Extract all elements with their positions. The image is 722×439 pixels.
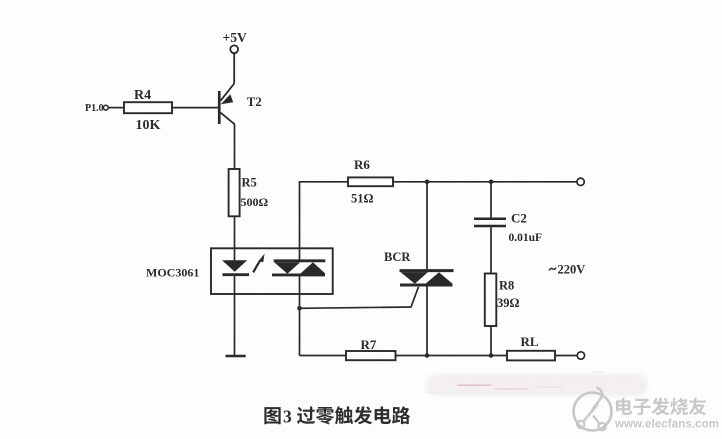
wire C2 to R8 <box>490 227 492 273</box>
pink highlight smear <box>426 374 648 396</box>
optocoupler MOC3061 box <box>211 248 333 294</box>
power +5V terminal circle <box>230 45 238 53</box>
wire MOC pin4 down <box>299 275 301 356</box>
wire BCR MT2 <box>426 182 428 269</box>
light arrow symbol <box>253 254 264 273</box>
watermark 电子发烧友 text <box>616 398 706 416</box>
wire LED cathode to ground <box>234 276 236 356</box>
wire BCR MT1 to bottom rail <box>426 287 428 356</box>
wire junction to C2 <box>490 182 492 218</box>
wire P1.0 to R4 <box>108 107 124 109</box>
resistor R6 <box>348 177 393 186</box>
triac BCR symbol <box>400 271 454 285</box>
faint scan smudge marks (decorative) <box>427 372 604 394</box>
wire +5V to T2 emitter <box>233 53 235 83</box>
resistor R4 <box>124 102 172 113</box>
wire R6 to top terminal <box>393 181 577 183</box>
node P1.0 terminal circle <box>103 105 108 110</box>
ground <box>226 355 246 358</box>
label ~220V <box>549 268 556 271</box>
wire T2 collector to R5 <box>234 124 236 169</box>
junction dot BCR bottom <box>425 353 430 358</box>
junction dot gate line <box>297 306 302 311</box>
wire RL to bottom terminal <box>555 355 577 357</box>
wire R4 to T2 base <box>172 107 218 109</box>
wire R5 to MOC3061 <box>234 216 236 260</box>
transistor T2 (PNP) <box>218 84 262 125</box>
resistor RL <box>507 351 555 361</box>
resistor R8 <box>485 274 497 327</box>
wire R8 to bottom rail <box>490 326 492 356</box>
wire bottom rail middle segment <box>396 355 508 357</box>
junction dot C2 top <box>489 180 494 185</box>
caption 图3 过零触发电路 <box>264 406 410 426</box>
resistor R5 <box>229 169 240 216</box>
LED inside MOC3061 <box>222 260 249 275</box>
terminal AC bottom circle <box>577 352 584 359</box>
junction dot R8 bottom <box>489 353 494 358</box>
wire MOC3061 pin6 to R6 corner <box>300 182 349 261</box>
capacitor C2 <box>474 211 542 245</box>
wire bottom rail left segment <box>300 355 347 357</box>
resistor R7 <box>346 351 396 360</box>
opto-triac inside MOC3061 <box>272 261 325 275</box>
watermark elecfans logo <box>574 388 612 431</box>
terminal AC top circle <box>577 178 584 185</box>
wire gate to BCR <box>300 287 419 309</box>
junction dot BCR top <box>425 180 430 185</box>
